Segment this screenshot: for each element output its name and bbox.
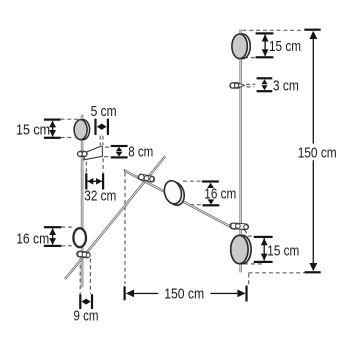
rod B (arm to lower-right) <box>124 170 235 230</box>
svg-text:32 cm: 32 cm <box>84 187 116 204</box>
dash: bottom disc top to 15cm bar <box>248 235 254 237</box>
wall mount pin (top right) <box>230 83 245 89</box>
dimension 15 cm (bottom right) <box>254 236 300 263</box>
dash: vertical left of 9cm <box>79 258 81 294</box>
svg-text:9 cm: 9 cm <box>74 308 99 325</box>
svg-text:3 cm: 3 cm <box>273 78 299 95</box>
dash: top disc bottom to 15cm bar <box>244 57 255 59</box>
svg-text:5 cm: 5 cm <box>91 103 117 120</box>
dash: vertical under rod B end to 150cm bar <box>124 173 126 285</box>
cable hook under joint <box>242 229 247 233</box>
dimension 5 cm <box>91 103 117 135</box>
svg-text:16 cm: 16 cm <box>16 230 49 247</box>
svg-text:15 cm: 15 cm <box>269 38 301 55</box>
bottom-right joint clamp <box>230 223 249 234</box>
left disc lamp head <box>74 120 90 140</box>
dash: 5cm left vertical to arm <box>99 136 101 146</box>
dimension 16 cm (right, middle shade) <box>202 180 236 206</box>
dimension 16 cm (left) <box>16 226 61 247</box>
dimension 32 cm <box>84 173 116 204</box>
left pole <box>81 115 84 288</box>
dash: vertical to 150cm bottom right bar <box>248 274 250 286</box>
rod A (long diagonal arm lower-left) <box>65 156 165 279</box>
top-right disc lamp head <box>232 34 250 59</box>
dimension 15 cm (top left) <box>16 119 61 139</box>
dimension 9 cm <box>74 294 99 325</box>
ring (bottom left) <box>73 228 86 247</box>
dash: shade top to 16cm right bar <box>183 180 202 182</box>
dash: mount pin to 3cm bars row2 <box>247 86 255 88</box>
dimension 150 cm (vertical right) <box>298 29 337 274</box>
dash: 5cm right vertical to arm <box>102 136 104 146</box>
dash: mount pin to 3cm bars row1 <box>246 83 255 85</box>
wall arm bar (left) <box>84 146 103 160</box>
bottom-left joint clamp <box>76 251 90 258</box>
svg-text:16 cm: 16 cm <box>204 186 236 203</box>
dash: top horizontal to 150cm vertical <box>243 29 304 31</box>
middle shade on rod B <box>162 179 187 207</box>
bottom-right disc lamp head <box>231 235 251 263</box>
dash: ring bottom <box>61 245 74 247</box>
dimension 3 cm <box>257 77 299 94</box>
right pole <box>239 30 242 273</box>
dimension 150 cm (bottom) <box>124 286 248 303</box>
dash: bracket down to 32cm left bar <box>85 162 87 173</box>
dash: disc-left bottom <box>61 137 75 139</box>
dashed guide lines <box>61 30 310 293</box>
dimension 8 cm <box>111 143 154 160</box>
dash: shade bottom to 16cm right bar <box>190 204 202 206</box>
dash: vertical right of 9cm <box>89 259 91 294</box>
dash: arm to 8cm top bar <box>105 146 111 148</box>
dash: bottom disc bottom dashes <box>244 263 262 265</box>
svg-text:150 cm: 150 cm <box>298 144 337 161</box>
dash: arm end down to 32cm bar <box>102 158 104 173</box>
svg-text:15 cm: 15 cm <box>267 243 299 260</box>
dash: disc-left top to 15cm bars <box>61 118 80 120</box>
svg-text:8 cm: 8 cm <box>128 143 153 160</box>
left bracket clamp <box>77 151 87 156</box>
dimension 15 cm (top right) <box>256 32 301 58</box>
svg-text:15 cm: 15 cm <box>16 121 50 138</box>
dash: horizontal to 150cm vertical bottom <box>249 272 310 274</box>
dash: ring top to 16cm bars <box>61 226 73 228</box>
dash: arm to 8cm bottom bar <box>104 156 111 158</box>
center joint on rod B <box>138 174 156 183</box>
svg-text:150 cm: 150 cm <box>164 286 204 303</box>
